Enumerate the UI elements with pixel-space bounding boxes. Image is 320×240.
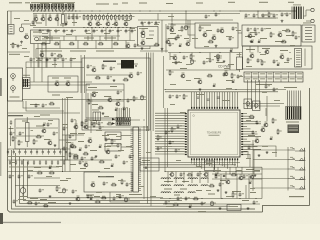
resistor R64 [37,172,38,174]
wire bc verts2 [217,167,219,174]
capacitor C43 [203,60,205,62]
capacitor C67 [129,154,131,156]
capacitor C38 [273,59,275,61]
capacitor C15 [131,29,133,31]
audio block box U3 [195,23,238,48]
capacitor on drop3 [217,96,220,98]
wire bus loop 2 [16,153,231,206]
capacitor C99 [217,28,219,30]
resistor R68 [121,179,123,180]
label bcg6 [198,211,206,212]
label mlx2 [78,141,84,142]
label boxB lbl1 [246,49,255,50]
label micro41 [262,145,268,148]
pot VR2 [62,15,65,24]
label micro39 [180,111,186,114]
transistor Q1 [25,35,29,39]
wire fan2 [131,115,185,119]
wire fan5 [131,120,185,123]
wire av bus1 [30,81,92,83]
electrolytic capacitor C36 [217,54,219,55]
resistor R61 [209,185,210,187]
transistor Q21 [255,139,259,143]
wire rn verticals [116,108,118,118]
label net left2 [40,115,50,116]
transformer T1 [294,7,295,20]
wire audio in [188,20,195,35]
capacitor C12 [109,29,111,31]
wire tm bus [138,19,233,21]
junction dots r3 [62,149,63,150]
wire cap drops av [30,62,32,68]
capacitor C82 [165,200,167,202]
wire fan4 [131,119,185,121]
wire bc top [165,171,260,173]
capacitor CM9 [57,160,59,162]
capacitor C111 [137,71,139,73]
crystal X1 [105,132,121,140]
label micro43 [166,145,172,148]
capacitor on drop2 [207,98,210,100]
label micro52 [146,151,151,154]
wire bc v3 [235,167,237,176]
U10 inner ring [190,112,237,154]
label micro4 [54,29,59,32]
wire bc v4 [261,167,263,198]
wire left h [8,112,81,114]
jack J2 [11,74,16,79]
diode D12 [188,206,191,208]
label tm lbl2 [168,38,176,39]
wire if x1 [86,89,124,91]
ground [113,79,115,80]
capacitor C13 [117,29,119,31]
diode D3 [276,64,279,66]
label micro3 [30,24,36,27]
wire right bus h2 [246,105,280,107]
wire U10 bottom fanout [191,160,193,163]
capacitor C41 [175,60,177,62]
transistor Q5 [88,22,92,26]
wire fp bus [252,147,254,191]
resistor R44 [36,136,37,138]
wire fan1 [131,113,185,118]
capacitor C129 [177,196,179,198]
capacitor C48 [87,64,89,66]
wire fan6 [131,122,185,124]
wire c bus2b [165,91,278,93]
diode D1 [257,41,260,43]
resistor R1 [83,14,85,15]
plug P2 [311,19,314,22]
resistor RT2 [34,4,36,9]
wire big L [26,62,82,68]
capacitor C115 [273,87,275,89]
capacitor C44 [237,74,239,76]
capacitor CL7 [42,149,44,152]
resistor R6 [103,14,105,15]
capacitor C77 [248,145,250,147]
label micro53 [34,115,40,118]
transistor Q16 [42,129,46,133]
capacitor C101 [253,13,255,15]
wire bcx verts [167,172,169,184]
wire lv3 [150,131,152,206]
transistor Q56 [250,175,254,179]
capacitor CL5 [30,149,32,152]
wire lw8 [141,148,185,149]
capacitor C105 [30,57,32,59]
resistor RT3 [37,4,39,9]
label micro50 [116,135,121,138]
label micro45 [196,165,202,168]
resistor R11 [122,14,124,15]
resistor R27 [285,30,286,32]
transistor Q1 [34,17,38,21]
wire ll h2 [8,171,101,173]
wire boxB v [304,49,306,67]
wire ric2 [265,108,267,116]
transistor Q2 [40,53,44,57]
filter FB1 [23,78,31,89]
wire tl h3 [36,40,135,42]
label c net lbl2 [222,100,230,101]
capacitor C96 [32,20,34,22]
capacitor C89 [28,174,30,176]
resistor R46 [18,140,20,141]
diode D5 [114,109,117,111]
label bl lbl2 [86,195,94,196]
wire x2 [121,146,131,148]
capacitor C31 [247,27,249,29]
label micro7 [96,23,102,26]
capacitor C108 [54,57,56,59]
label blg2 [56,166,62,167]
label micro35 [226,87,232,90]
resistor R51 [93,122,95,123]
wire lw9 [141,151,185,152]
label bot lbl1 [30,198,38,199]
capacitor C114 [265,84,267,86]
label micro20 [236,29,241,32]
transistor Q51 [70,144,74,148]
label micro22 [266,27,271,30]
label tmx1 [170,33,176,34]
resistor R78 [27,202,28,204]
label table caption [256,84,272,85]
label micro72 [24,55,29,58]
plug P1 [311,8,314,11]
wire avv1 [33,68,35,83]
capacitor CL1 [7,149,9,152]
wire tl h4 [36,48,150,50]
ground [225,191,227,192]
junction dots misc [180,52,181,53]
wire c bus1 [166,69,240,71]
label bc lbl4 [180,189,187,190]
resistor RT1 [31,4,33,9]
wire bus loop 3 [20,156,206,203]
electrolytic capacitor C52 [141,95,143,96]
label tl nets6 [96,51,114,52]
ground [46,59,48,60]
wire tl longdrops [33,14,35,27]
transistor Q31 [186,42,190,46]
transistor Q40 [250,54,254,58]
capacitor C24 [177,34,179,36]
wire av bus2 [30,84,90,86]
capacitor C62 [85,118,87,120]
dense label block [288,125,300,134]
capacitor C88 [18,174,20,176]
label micro8 [112,23,117,26]
label c lbl1 [180,68,187,69]
label micro67 [226,195,232,198]
wire ribbon comb [287,91,289,108]
inductor L6 [174,185,184,186]
label micro11 [104,32,110,35]
junction dots r4 [34,11,35,12]
capacitor C91 [103,181,105,183]
label micro56 [28,169,33,172]
resistor R4 [95,14,97,15]
label bc lbl5 [232,191,241,192]
resistor R47 [81,121,83,122]
capacitor C106 [38,57,40,59]
wire fan3 [131,117,185,120]
transistor Q24 [226,180,230,184]
label cn6 text [286,122,299,123]
resistor R53 [111,139,113,140]
label micro29 [186,63,192,66]
resistor RT11 [65,4,67,9]
wire key stub1 [253,149,288,151]
label micro42 [272,151,277,154]
wire cn1 [10,11,12,25]
wire tbl down1 [247,80,249,109]
label c lbl3 [226,80,233,81]
wire pwr dn2 [257,46,259,53]
transistor Q23 [204,173,208,177]
label micro28 [170,55,175,58]
inductor L8 [201,185,208,186]
resistor R48 [73,157,74,159]
label top mid [166,3,173,4]
label row refs2 [9,166,59,169]
capacitor C94 [72,189,74,191]
capacitor C116 [63,126,65,128]
resistor R24 [208,41,209,43]
capacitor C79 [180,172,182,174]
diode D19 [48,167,51,169]
sub box lower-left [15,119,59,149]
wire bb1 [140,162,240,164]
wire cx1 [209,53,211,59]
ground [247,207,249,208]
label micro1 [14,17,20,20]
resistor R3 [91,14,93,15]
transistor Q52 [106,150,110,154]
tuner pins [33,44,35,48]
ground [223,60,225,61]
resistor R43 [49,103,50,105]
capacitor C127 [215,174,217,176]
wire ric1 [243,146,276,157]
label micro65 [150,195,156,198]
label pre out1 [52,95,60,96]
wire lw5 [141,140,185,141]
capacitor C121 [87,194,89,196]
resistor R73 [217,56,219,57]
label micro30 [206,57,211,60]
ground [281,20,283,21]
label micro64 [116,195,121,198]
ground [102,112,104,113]
capacitor C71 [117,143,119,145]
diode D11 [248,182,251,184]
label tr lbl [261,15,269,16]
capacitor CL8 [48,149,50,152]
resistor R80 [193,198,194,200]
wire bus tr [240,10,296,12]
label mlx1 [70,133,77,134]
capacitor C64 [79,160,81,162]
capacitor on drop1 [197,96,200,98]
wire tl links [91,28,93,41]
wire tl h2 [33,35,120,37]
ground [254,174,256,175]
connector CN1 [8,25,14,35]
label cx1 [214,56,220,57]
wire lw3 [141,135,185,136]
label micro13 [142,27,148,30]
inductor L1 [161,178,171,179]
capacitor C90 [39,188,41,190]
wire c bus2 [165,89,286,91]
wire avv2 [41,68,43,83]
label tl nets2 [84,38,94,39]
capacitor C74 [165,130,167,132]
wire ml v1 [65,135,67,160]
resistor R62 [173,204,174,206]
resistor R15 [54,43,55,45]
capacitor C46 [176,94,178,96]
junction dots bus1 [60,11,61,12]
tuner internals [35,37,39,41]
capacitor C7 [63,29,65,31]
capacitor CM1 [9,160,11,162]
resistor R7 [106,14,108,15]
resistor R12 [126,14,128,15]
resistor R9 [114,14,116,15]
label pwrx1 [260,38,267,39]
capacitor C60 [47,122,49,124]
resistor network RN1 [116,118,131,121]
transistor Q33 [248,34,252,38]
label micro51 [126,145,132,148]
capacitor C30 [286,12,288,14]
capacitor C58 [53,131,55,133]
label pre out2 [66,97,73,98]
transistor Q2 [41,17,45,21]
capacitor C103 [273,13,275,15]
bus junctions [33,10,34,11]
label cx2 [228,64,234,65]
diode D10 [269,138,272,140]
wire if x2 [86,100,124,102]
wire if w2 [86,119,140,121]
key switch S3 [288,168,295,170]
connector CN5 ladder [133,127,139,192]
label cn5 label [129,194,142,195]
capacitor CT1 [10,120,12,122]
diode D6 [42,124,45,126]
resistor R41 [133,96,135,97]
resistor R39 [98,107,99,109]
diode D13 [89,198,92,200]
diode D18 [214,174,217,176]
diode D16 [250,41,253,43]
label blg4 [80,168,86,169]
capacitor C98 [175,36,177,38]
wire lw7 [141,146,185,147]
label ric lbl [248,135,255,136]
resistor R52 [71,146,72,148]
ground [21,41,23,42]
resistor RT7 [51,4,53,9]
wire lw4 [141,138,185,139]
wire vb2 [64,98,66,172]
label micro54 [48,119,53,122]
label audio in lbl [206,30,212,31]
resistor R79 [231,174,232,176]
capacitor C53 [91,121,93,123]
capacitor C83 [201,201,203,203]
wire left dn2 [26,101,64,111]
label micro31 [224,67,230,70]
wire av top bus [26,67,84,69]
capacitor C104 [255,31,257,33]
capacitor C25 [205,14,207,16]
jack J3 [11,86,16,91]
capacitor C20 [148,21,150,23]
scan artifact left mid [0,78,2,96]
inductor L4 [201,178,208,179]
label micro6 [44,36,49,39]
capacitor CV1 [145,166,147,168]
label micro73 [10,43,16,46]
capacitor C65 [115,154,117,156]
transistor Q36 [224,72,228,76]
label mlx4 [104,146,111,147]
capacitor C51 [127,98,129,100]
transistor Q19 [88,139,92,143]
relay K1 [227,205,241,211]
connector CN6 bars [287,107,288,119]
wire vbus4 [152,53,154,132]
transistor Q32 [212,36,216,40]
IF section box [82,58,150,130]
wire key stub5 [253,187,288,189]
resistor R75 [95,201,96,203]
wire xfmr out [304,10,307,16]
label micro5 [66,33,72,36]
label strip lbl [172,62,182,63]
electrolytic capacitor C23 [185,25,187,26]
label top row1 [40,3,49,4]
wire tmx v [189,20,191,42]
wire tm v1 [185,11,187,25]
